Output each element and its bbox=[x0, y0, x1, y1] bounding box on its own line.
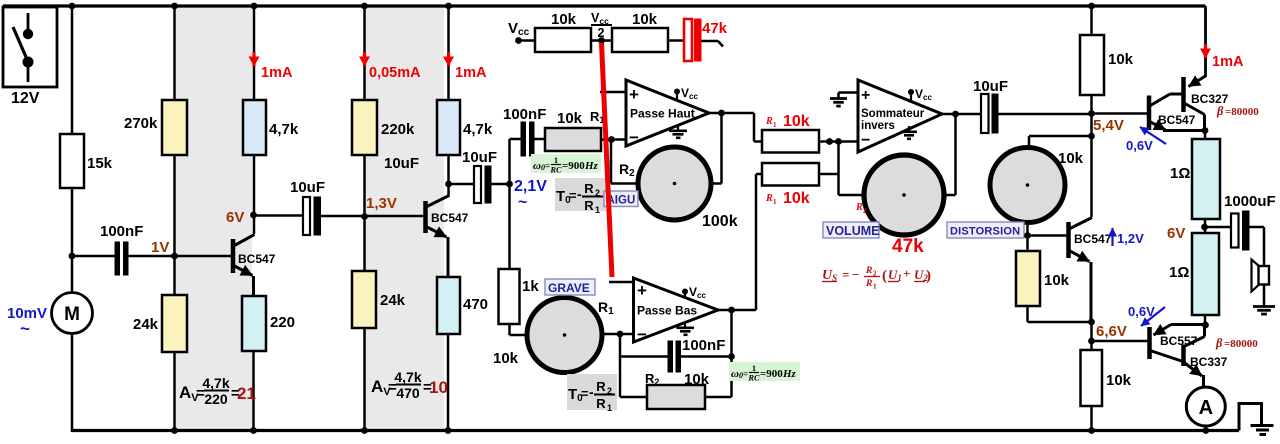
svg-text:1: 1 bbox=[773, 121, 777, 129]
svg-text:BC547: BC547 bbox=[1158, 113, 1196, 127]
svg-text:β: β bbox=[1216, 104, 1224, 118]
node bottom 24k bbox=[171, 427, 178, 434]
wire bottom ground rail bbox=[72, 429, 1239, 432]
ground speaker bbox=[1263, 285, 1266, 306]
transistor Q3 BC547 bbox=[1069, 218, 1112, 323]
svg-text:BC547: BC547 bbox=[1074, 232, 1112, 246]
svg-text:=900: =900 bbox=[760, 368, 783, 380]
svg-text:10k: 10k bbox=[557, 110, 583, 127]
svg-text:10k: 10k bbox=[1108, 51, 1134, 68]
resistor 15k bbox=[60, 134, 113, 188]
capacitor 100nF input bbox=[72, 223, 232, 275]
svg-text:5,4V: 5,4V bbox=[1093, 117, 1124, 134]
capacitor 1000uF bbox=[1205, 193, 1276, 266]
current arrow 1mA stage1 bbox=[254, 52, 293, 81]
wire DISTORSION pot down bbox=[1026, 222, 1029, 251]
node PB feedback cap bbox=[728, 353, 735, 360]
svg-text:10uF: 10uF bbox=[384, 155, 419, 172]
svg-text:=: = bbox=[569, 188, 577, 203]
wire summator output bbox=[942, 113, 981, 116]
wire R1b to summing node bbox=[819, 142, 839, 196]
node PH minus bbox=[608, 136, 615, 143]
svg-text:470: 470 bbox=[396, 385, 420, 401]
transistor Q2 BC547 bbox=[426, 196, 469, 279]
ground summator plus bbox=[830, 93, 858, 107]
node base divider Q1 bbox=[171, 253, 178, 260]
node summing a bbox=[826, 138, 833, 145]
wire emitter Q1 to 220 bbox=[252, 276, 255, 297]
svg-text:invers: invers bbox=[861, 120, 895, 132]
wire 10k bottom to rail bbox=[1090, 406, 1093, 432]
label GRAVE box bbox=[545, 279, 595, 295]
svg-text:1,2V: 1,2V bbox=[1117, 231, 1144, 246]
svg-text:6,6V: 6,6V bbox=[1096, 323, 1127, 340]
svg-text:1: 1 bbox=[607, 403, 612, 413]
transistor Q1 BC547 bbox=[233, 235, 276, 298]
svg-text:220: 220 bbox=[204, 391, 228, 407]
svg-text:100k: 100k bbox=[702, 213, 738, 230]
svg-text:47k: 47k bbox=[702, 20, 728, 37]
wire 470 to bottom rail bbox=[447, 334, 450, 432]
shaded region stage 2 bbox=[365, 6, 444, 431]
wire GRAVE to PB minus bbox=[601, 333, 634, 336]
node 6.6V bbox=[1088, 319, 1095, 326]
svg-text:+: + bbox=[903, 266, 910, 281]
switch S1 12V supply bbox=[3, 7, 57, 87]
formula w0 PH bbox=[531, 154, 601, 175]
svg-text:10k: 10k bbox=[632, 11, 658, 28]
transistor Q5 BC327 bbox=[1184, 76, 1229, 131]
svg-text:100nF: 100nF bbox=[100, 223, 143, 240]
node bottom 470 bbox=[445, 427, 452, 434]
svg-text:2,1V: 2,1V bbox=[514, 178, 547, 195]
wire 270k to 24k bbox=[173, 155, 176, 295]
resistor 4.7k stage2 bbox=[437, 100, 493, 155]
svg-text:0,05mA: 0,05mA bbox=[369, 65, 421, 81]
resistor R1a 10k bbox=[762, 113, 819, 153]
current arrow 1mA stage2 bbox=[449, 52, 487, 81]
label beta top bbox=[1216, 104, 1259, 118]
node PB minus bbox=[617, 331, 624, 338]
formula Av stage1 bbox=[179, 375, 256, 407]
svg-text:DISTORSION: DISTORSION bbox=[950, 226, 1020, 238]
svg-text:β: β bbox=[1215, 336, 1223, 350]
wire PH output to R1a bbox=[754, 113, 762, 142]
wire between 1ohm resistors bbox=[1204, 219, 1207, 234]
wire 2.1V node riser bbox=[508, 139, 511, 269]
capacitor 10uF output summator bbox=[973, 78, 1092, 133]
potentiometer GRAVE 10k bbox=[493, 298, 602, 373]
label 10mV bbox=[7, 305, 47, 338]
node rail 4.7k stage2 bbox=[445, 3, 452, 10]
svg-text:(: ( bbox=[882, 268, 887, 284]
wire summator feedback left bbox=[839, 194, 865, 197]
resistor 1k bbox=[499, 269, 540, 324]
wire to base Q5 BC557 bbox=[1092, 340, 1148, 343]
svg-text:10k: 10k bbox=[1058, 150, 1084, 167]
svg-text:220k: 220k bbox=[381, 121, 415, 138]
svg-text:10: 10 bbox=[429, 378, 448, 397]
node output pair top bbox=[1202, 127, 1209, 134]
ground bottom right bbox=[1239, 404, 1274, 435]
wire 24k to bottom rail bbox=[173, 352, 176, 432]
svg-text:M: M bbox=[64, 304, 80, 325]
svg-text:0,6V: 0,6V bbox=[1126, 138, 1153, 153]
svg-text:−: − bbox=[629, 128, 639, 147]
svg-text:10k: 10k bbox=[783, 190, 810, 207]
Vcc source left bbox=[508, 20, 535, 44]
svg-text:4,7k: 4,7k bbox=[394, 369, 421, 385]
svg-text:10uF: 10uF bbox=[973, 78, 1008, 95]
current arrow 1mA output bbox=[1206, 44, 1244, 70]
node bottom 24k stage2 bbox=[361, 427, 368, 434]
node PB output feedback bbox=[728, 307, 735, 314]
svg-text:1: 1 bbox=[595, 205, 600, 215]
svg-text:R: R bbox=[584, 181, 594, 196]
svg-text:10k: 10k bbox=[1044, 272, 1070, 289]
wire Vcc/2 red reference line bbox=[602, 43, 613, 277]
svg-text:R: R bbox=[765, 116, 773, 127]
svg-text:BC547: BC547 bbox=[238, 252, 276, 266]
resistor 10k divider right bbox=[612, 11, 668, 52]
svg-text:0,6V: 0,6V bbox=[1128, 304, 1155, 319]
svg-text:10uF: 10uF bbox=[290, 179, 325, 196]
wire to base Q3 bbox=[1028, 234, 1068, 237]
wire rail to 4.7k stage2 bbox=[447, 6, 450, 100]
svg-text:1V: 1V bbox=[151, 239, 169, 256]
node 2.1V bbox=[506, 181, 513, 188]
capacitor 10uF output stage2 bbox=[449, 149, 511, 203]
svg-text:RC: RC bbox=[549, 165, 562, 175]
wire PB output to R1b bbox=[756, 174, 762, 310]
svg-text:~: ~ bbox=[518, 194, 527, 211]
shaded region stage 1 bbox=[176, 6, 252, 431]
label DISTORSION box bbox=[947, 222, 1024, 238]
wire 1ohm bottom to pair bbox=[1204, 315, 1207, 325]
svg-text:R: R bbox=[865, 266, 872, 276]
node 6V output bbox=[1201, 224, 1208, 231]
svg-text:4,7k: 4,7k bbox=[269, 121, 299, 138]
node base Q3 bbox=[1024, 232, 1031, 239]
wire rail to 220k bbox=[363, 6, 366, 100]
svg-text:−: − bbox=[637, 325, 647, 344]
svg-text:470: 470 bbox=[463, 296, 488, 313]
wire PB plus input bbox=[609, 281, 634, 284]
node 5.4V bbox=[1088, 110, 1095, 117]
node ammeter rail bbox=[1202, 427, 1209, 434]
wire 220 to bottom rail bbox=[252, 351, 255, 432]
wire 24k stage2 to bottom rail bbox=[363, 328, 366, 432]
resistor 24k stage2 bbox=[352, 271, 406, 328]
resistor 1 ohm top bbox=[1170, 139, 1220, 219]
svg-text:+: + bbox=[629, 85, 639, 104]
svg-text:220: 220 bbox=[270, 314, 295, 331]
svg-text:1000uF: 1000uF bbox=[1224, 193, 1276, 210]
svg-text:1k: 1k bbox=[522, 278, 539, 295]
svg-text:=80000: =80000 bbox=[1225, 106, 1259, 118]
wire 4.7k to collector Q1 bbox=[253, 155, 256, 234]
potentiometer DISTORSION 10k bbox=[990, 148, 1084, 223]
label R2 volume bbox=[855, 202, 867, 215]
svg-text:R: R bbox=[584, 198, 594, 213]
svg-text:): ) bbox=[926, 268, 931, 284]
wire 1k to GRAVE pot bbox=[510, 324, 529, 335]
wire 10k to 5.4V node bbox=[1090, 95, 1093, 217]
svg-text:Passe Haut: Passe Haut bbox=[630, 107, 695, 121]
capacitor 47k red bbox=[668, 19, 728, 61]
capacitor 100nF PB feedback bbox=[620, 334, 732, 397]
svg-text:24k: 24k bbox=[380, 292, 406, 309]
wire top supply rail bbox=[3, 4, 1206, 7]
svg-text:100nF: 100nF bbox=[682, 337, 725, 354]
svg-text:+: + bbox=[861, 87, 870, 104]
node bottom right rail bbox=[1088, 427, 1095, 434]
svg-text:RC: RC bbox=[747, 373, 760, 383]
ammeter A bbox=[1186, 387, 1225, 426]
wire PB feedback riser bbox=[730, 310, 733, 397]
node collector Q1 6V bbox=[250, 212, 257, 219]
op-amp PB Passe Bas bbox=[634, 278, 719, 344]
svg-text:BC547: BC547 bbox=[431, 211, 469, 225]
wire 220k to base Q2 bbox=[363, 155, 366, 271]
speaker bbox=[1252, 260, 1270, 292]
wire to DISTORSION pot bbox=[1029, 136, 1092, 149]
label 2.1V bbox=[514, 178, 547, 211]
svg-text:R: R bbox=[765, 193, 773, 204]
svg-text:1: 1 bbox=[873, 283, 877, 291]
node distorsion tap bbox=[1088, 133, 1095, 140]
svg-text:10uF: 10uF bbox=[462, 149, 497, 166]
resistor 270k bbox=[124, 100, 187, 155]
svg-text:−: − bbox=[852, 267, 859, 282]
resistor 10k emitter bias bbox=[1016, 251, 1070, 306]
svg-text:6V: 6V bbox=[226, 209, 244, 226]
wire to 1ohm top bbox=[1204, 131, 1207, 141]
svg-text:10k: 10k bbox=[783, 113, 810, 130]
svg-text:R: R bbox=[865, 279, 872, 289]
wire rail to 10k right bbox=[1090, 6, 1093, 35]
capacitor 10uF coupling stage1-2 bbox=[254, 179, 426, 235]
formula w0 PB bbox=[729, 362, 800, 383]
wire PB output bbox=[718, 309, 756, 312]
op-amp PH Passe Haut bbox=[626, 80, 709, 147]
node collector Q2 bbox=[445, 181, 452, 188]
node base Q2 1.3V bbox=[361, 213, 368, 220]
svg-text:1mA: 1mA bbox=[261, 65, 293, 81]
svg-text:1Ω: 1Ω bbox=[1169, 264, 1189, 281]
node source junction bbox=[69, 253, 76, 260]
svg-text:1mA: 1mA bbox=[1212, 54, 1244, 70]
wire PH feedback left bbox=[611, 140, 640, 184]
svg-text:=: = bbox=[842, 267, 849, 282]
svg-text:10k: 10k bbox=[1106, 372, 1132, 389]
wire R1a to summing node bbox=[819, 140, 858, 143]
wire PH feedback right bbox=[709, 113, 722, 184]
svg-text:270k: 270k bbox=[124, 115, 158, 132]
svg-text:1,3V: 1,3V bbox=[366, 195, 397, 212]
svg-text:12V: 12V bbox=[11, 90, 40, 107]
wire PH plus input bbox=[600, 91, 626, 94]
wire 10k bias to 6.6V node bbox=[1028, 306, 1092, 322]
svg-text:~: ~ bbox=[20, 319, 30, 338]
svg-text:1: 1 bbox=[554, 155, 558, 165]
svg-text:A: A bbox=[1199, 397, 1213, 419]
label VOLUME box bbox=[823, 222, 879, 238]
potentiometer VOLUME 47k bbox=[864, 155, 944, 235]
wire base Q4 bbox=[1092, 112, 1147, 115]
svg-text:1Ω: 1Ω bbox=[1170, 165, 1190, 182]
svg-text:=80000: =80000 bbox=[1224, 338, 1258, 350]
node summator output bbox=[952, 111, 959, 118]
resistor 10k divider left bbox=[535, 11, 591, 52]
node output pair bottom bbox=[1202, 322, 1209, 329]
label 0.6V top arrow bbox=[1126, 127, 1166, 153]
capacitor 100nF PH input bbox=[503, 106, 546, 156]
resistor R1 10k PH bbox=[545, 109, 604, 151]
node top rail left bbox=[69, 3, 76, 10]
transistor Q6 BC557 bbox=[1150, 325, 1206, 362]
wire rail to 4.7k stage1 bbox=[253, 6, 256, 100]
transistor Q4 BC547 bbox=[1149, 94, 1206, 131]
svg-text:R: R bbox=[596, 379, 606, 394]
label 1.2V arrow bbox=[1113, 228, 1145, 246]
potentiometer AIGU 100k bbox=[638, 147, 738, 230]
svg-text:6V: 6V bbox=[1167, 225, 1185, 242]
wire summator feedback right bbox=[944, 114, 956, 195]
svg-text:=: = bbox=[581, 386, 589, 401]
svg-text:2: 2 bbox=[598, 26, 605, 40]
svg-text:Sommateur: Sommateur bbox=[861, 108, 925, 120]
svg-text:Passe Bas: Passe Bas bbox=[637, 304, 697, 318]
node summing b bbox=[835, 138, 842, 145]
svg-text:Hz: Hz bbox=[782, 368, 797, 380]
resistor 24k stage1 bbox=[133, 295, 187, 352]
svg-text:1: 1 bbox=[773, 198, 777, 206]
svg-text:21: 21 bbox=[237, 384, 256, 403]
node rail 4.7k stage1 bbox=[251, 3, 258, 10]
svg-text:GRAVE: GRAVE bbox=[548, 281, 590, 295]
wire left column from top rail to 15k bbox=[71, 6, 74, 134]
resistor 10k bottom right bbox=[1081, 350, 1132, 406]
formula T0 PB bbox=[567, 374, 617, 413]
resistor 220k bbox=[352, 100, 415, 155]
label beta bottom bbox=[1215, 336, 1258, 350]
svg-text:R: R bbox=[596, 396, 606, 411]
resistor 1 ohm bottom bbox=[1169, 233, 1219, 315]
resistor 470 bbox=[437, 277, 488, 334]
svg-text:−: − bbox=[861, 132, 870, 149]
label 0.6V bottom arrow bbox=[1128, 304, 1165, 326]
wire R1 to PH minus bbox=[601, 138, 626, 141]
resistor 4.7k stage1 bbox=[243, 100, 299, 155]
wire rail to top pair bbox=[1204, 6, 1207, 77]
wire divider middle bbox=[591, 39, 612, 42]
node rail right bbox=[1088, 3, 1095, 10]
svg-text:4,7k: 4,7k bbox=[463, 121, 493, 138]
resistor 220 bbox=[242, 296, 295, 351]
wire PH output bbox=[709, 112, 754, 115]
svg-text:10k: 10k bbox=[684, 371, 710, 388]
formula Av stage2 bbox=[371, 369, 448, 401]
node base Q5 bbox=[1088, 338, 1095, 345]
transistor Q7 BC337 bbox=[1184, 325, 1228, 388]
svg-text:+: + bbox=[637, 281, 647, 300]
wire 6.6V to 10k bottom bbox=[1090, 322, 1093, 350]
current arrow 0.05mA bbox=[365, 52, 422, 81]
node Vcc/2 bbox=[591, 11, 612, 44]
svg-text:R: R bbox=[855, 202, 863, 213]
resistor R1b 10k bbox=[762, 163, 819, 207]
svg-text:-: - bbox=[589, 384, 594, 400]
svg-text:Hz: Hz bbox=[584, 160, 599, 172]
wire 4.7k stage2 to collector Q2 bbox=[447, 155, 450, 197]
svg-text:10k: 10k bbox=[551, 11, 577, 28]
formula US summator bbox=[822, 266, 931, 291]
svg-text:2: 2 bbox=[863, 207, 867, 215]
svg-text:VOLUME: VOLUME bbox=[826, 224, 879, 238]
formula T0 PH bbox=[555, 178, 606, 215]
svg-text:100nF: 100nF bbox=[503, 106, 546, 123]
svg-text:10k: 10k bbox=[493, 350, 519, 367]
node rail 270k bbox=[171, 3, 178, 10]
generator M 10mV bbox=[52, 293, 93, 334]
svg-text:-: - bbox=[577, 186, 582, 202]
svg-text:47k: 47k bbox=[892, 236, 924, 257]
node rail 220k bbox=[361, 3, 368, 10]
resistor R2 10k PB bbox=[620, 371, 732, 409]
svg-text:BC337: BC337 bbox=[1190, 355, 1228, 369]
svg-text:1mA: 1mA bbox=[455, 65, 487, 81]
wire 15k to source node bbox=[71, 188, 74, 293]
svg-text:24k: 24k bbox=[133, 316, 159, 333]
node bottom 220 bbox=[250, 427, 257, 434]
svg-text:1: 1 bbox=[752, 363, 756, 373]
wire M to bottom rail bbox=[71, 333, 74, 432]
svg-text:15k: 15k bbox=[87, 155, 113, 172]
node PH output bbox=[718, 110, 725, 117]
label AIGU box bbox=[604, 191, 638, 207]
resistor 10k bias top bbox=[1080, 35, 1134, 95]
svg-text:=900: =900 bbox=[562, 160, 585, 172]
svg-text:4,7k: 4,7k bbox=[202, 375, 229, 391]
wire rail to 270k bbox=[173, 6, 176, 100]
op-amp U3 Sommateur inverseur bbox=[858, 80, 942, 152]
